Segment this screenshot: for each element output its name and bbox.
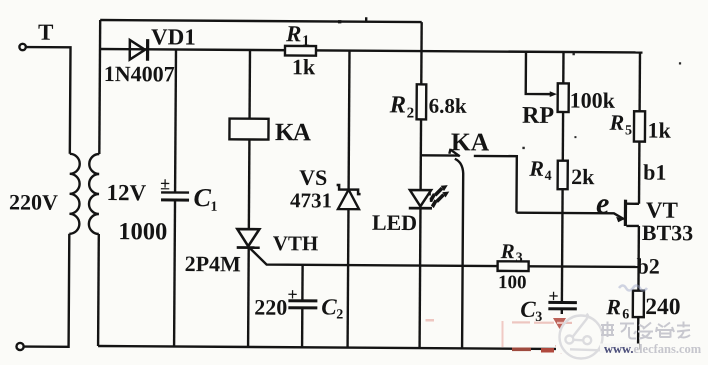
resistor R2 (417, 84, 427, 119)
relay coil KA (229, 119, 268, 140)
svg-text:b2: b2 (637, 253, 660, 278)
label R4 (528, 156, 552, 184)
wire relay branch top (248, 50, 251, 119)
label C1 (193, 183, 217, 215)
svg-text:R: R (605, 294, 621, 319)
wire switch fixed contact (473, 156, 516, 213)
polarity mark C1 (160, 173, 170, 193)
label R3 (500, 239, 523, 266)
label 100 (R3) (498, 272, 527, 293)
svg-text:KA: KA (275, 119, 311, 146)
watermark logo circle (556, 314, 603, 359)
red annotation marks (426, 318, 573, 354)
label R2 (389, 91, 415, 121)
wire C2 branch (301, 265, 304, 347)
polarity mark C2 (287, 284, 297, 304)
wire primary bottom (24, 234, 69, 347)
wire emitter line (516, 213, 624, 219)
label C3 (520, 297, 542, 325)
label 2P4M (185, 251, 242, 276)
watermark text www.elecfans.com (600, 342, 702, 356)
svg-text:VT: VT (646, 198, 678, 223)
svg-text:LED: LED (372, 210, 417, 235)
label VD1 (151, 24, 196, 49)
label RP (522, 103, 554, 129)
svg-text:e: e (596, 187, 610, 220)
wire C1 branch (174, 49, 176, 346)
wire main positive rail (100, 49, 642, 53)
wire zener branch (348, 51, 350, 348)
svg-text:4: 4 (545, 169, 552, 184)
wire R2 branch top (420, 22, 423, 84)
wire thyristor cathode to bottom rail (247, 247, 250, 346)
svg-text:www.: www. (604, 342, 634, 356)
pink horizontal line (512, 321, 530, 323)
wiper arrowhead (550, 91, 557, 97)
label 1k (R5) (647, 118, 671, 143)
terminal bottom-left (16, 343, 23, 350)
label 1N4007 (104, 61, 175, 86)
wire thyristor gate (250, 248, 498, 266)
wire R2 to LED (419, 119, 422, 190)
svg-text:±: ± (160, 173, 170, 193)
wire b2 (637, 226, 640, 291)
resistor R1 (285, 46, 316, 56)
label b2 (637, 253, 660, 278)
svg-text:1000: 1000 (118, 218, 167, 245)
svg-text:+: + (548, 286, 558, 306)
svg-text:+: + (287, 284, 297, 304)
wire R3 to b2 node (529, 265, 639, 268)
svg-text:1k: 1k (647, 118, 671, 143)
wire R4 to C3 (561, 189, 564, 302)
capacitor C1 (161, 192, 189, 200)
label 4731 (290, 188, 332, 212)
label KA (coil) (275, 119, 311, 146)
svg-text:1k: 1k (292, 54, 316, 79)
svg-text:1N4007: 1N4007 (104, 61, 175, 86)
svg-text:R: R (608, 110, 624, 135)
label 220 (254, 295, 287, 320)
label 12V (106, 180, 146, 205)
svg-text:T: T (38, 20, 54, 45)
label BT33 (642, 220, 694, 245)
watermark text 电子发烧友 (601, 322, 690, 339)
terminal top-left (19, 44, 25, 50)
svg-text:1: 1 (302, 33, 310, 49)
label 220V (9, 189, 58, 214)
svg-text:6.8k: 6.8k (429, 94, 467, 118)
svg-text:VS: VS (299, 165, 327, 190)
svg-text:C: C (321, 294, 337, 319)
svg-text:R: R (528, 156, 544, 181)
label e (596, 187, 610, 220)
svg-text:C: C (193, 183, 211, 212)
wire RP top (562, 52, 565, 83)
svg-text:2P4M: 2P4M (185, 251, 242, 276)
resistor R5 (634, 111, 645, 141)
red overlay on rail 1 (512, 348, 531, 352)
label b1 (643, 160, 666, 185)
resistor R4 (558, 161, 568, 190)
wire RP to R4 (562, 112, 565, 161)
svg-text:R: R (389, 91, 407, 118)
label 1k (R1) (292, 54, 316, 79)
wire switch curve to bottom rail (454, 159, 464, 349)
switch KA contact (421, 149, 460, 157)
svg-text:240: 240 (645, 294, 680, 320)
blue smudge artifact (619, 286, 647, 291)
svg-text:VTH: VTH (273, 231, 319, 255)
wire RP wiper (526, 52, 553, 94)
thyristor VTH (237, 229, 260, 248)
label 240 (645, 294, 680, 320)
label VS (299, 165, 327, 190)
svg-text:3: 3 (516, 251, 523, 266)
speck on main rail (522, 53, 681, 151)
resistor R3 (498, 261, 529, 271)
pink vertical line (502, 321, 504, 347)
label R6 (605, 294, 629, 322)
svg-text:6: 6 (622, 307, 629, 322)
resistor R6 (633, 291, 644, 317)
label VT (646, 198, 678, 223)
diode VD1 (130, 39, 148, 61)
svg-text:5: 5 (625, 123, 632, 138)
transformer T secondary winding (89, 154, 100, 234)
capacitor C2 (288, 301, 317, 308)
wire R6 to bottom rail (637, 317, 640, 349)
svg-text:100: 100 (498, 272, 527, 293)
speck on top rail (338, 20, 341, 23)
red arrow on rail (555, 346, 568, 354)
svg-text:BT33: BT33 (642, 220, 694, 245)
wire secondary top to top rail (98, 20, 101, 154)
label C2 (321, 294, 343, 322)
svg-text:VD1: VD1 (151, 24, 196, 49)
svg-text:R: R (285, 21, 302, 46)
label 6.8k (429, 94, 467, 118)
zener diode VS (336, 185, 360, 209)
wire LED cathode to bottom rail (418, 208, 421, 348)
transformer T primary winding (69, 154, 80, 234)
svg-text:2k: 2k (571, 164, 595, 189)
label 1000 (118, 218, 167, 245)
potentiometer RP (558, 83, 569, 112)
wire top rail (100, 20, 421, 22)
speck above rail (365, 17, 367, 22)
wire relay to thyristor (248, 139, 251, 229)
wire primary top (25, 47, 70, 154)
svg-text:220: 220 (254, 295, 287, 320)
LED (409, 190, 432, 208)
svg-text:1: 1 (210, 200, 217, 215)
svg-text:C: C (520, 297, 536, 322)
red overlay on rail 2 (541, 348, 554, 353)
wire R5 to b1 (638, 142, 641, 204)
svg-text:KA: KA (451, 127, 490, 156)
wire secondary bottom (97, 234, 100, 346)
wire C3 to bottom rail (561, 309, 563, 314)
label 100k (570, 88, 616, 113)
svg-text:4731: 4731 (290, 188, 332, 212)
pink dash near LED bottom (426, 319, 435, 322)
svg-text:R: R (500, 239, 515, 263)
label KA (switch) (451, 127, 490, 156)
wire R5 branch (638, 52, 641, 111)
label 2k (571, 164, 595, 189)
svg-text:2: 2 (407, 105, 415, 121)
label R5 (608, 110, 632, 139)
svg-text:12V: 12V (106, 180, 146, 205)
capacitor C3 (548, 302, 577, 308)
wire bottom rail (98, 346, 638, 349)
LED light arrows (428, 185, 449, 208)
label T (38, 20, 54, 45)
label VTH (273, 231, 319, 255)
polarity mark C3 (548, 286, 558, 306)
label R1 (285, 21, 310, 49)
svg-text:RP: RP (522, 103, 554, 129)
svg-text:b1: b1 (643, 160, 666, 185)
transistor VT (UJT) (625, 200, 639, 226)
red arrow under C3 (553, 318, 566, 329)
svg-text:2: 2 (336, 308, 343, 323)
label LED (372, 210, 417, 235)
emitter arrowhead (616, 217, 624, 223)
svg-text:220V: 220V (9, 189, 58, 214)
